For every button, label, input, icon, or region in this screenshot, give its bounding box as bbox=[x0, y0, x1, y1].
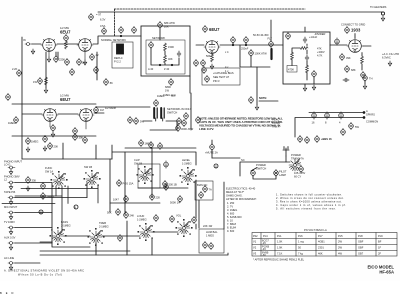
capacitor C31 coupling bbox=[153, 108, 155, 118]
svg-text:2301: 2301 bbox=[318, 246, 324, 250]
svg-text:47K: 47K bbox=[317, 47, 322, 51]
svg-text:GBF: GBF bbox=[358, 240, 364, 244]
wire tone band y251 bbox=[40, 250, 130, 252]
svg-text:40K: 40K bbox=[168, 57, 173, 61]
table voltage chart bbox=[252, 228, 397, 256]
svg-text:6EU7: 6EU7 bbox=[60, 97, 71, 102]
ground at J1 bbox=[31, 49, 34, 54]
ground screen bbox=[255, 105, 258, 110]
tube V3b bbox=[78, 109, 94, 122]
svg-text:300K ATW: 300K ATW bbox=[181, 127, 194, 131]
potentiometer P4 bbox=[134, 117, 139, 124]
resistor R18 bbox=[51, 124, 56, 131]
svg-text:A: A bbox=[366, 109, 368, 113]
capacitor C50 bbox=[124, 195, 129, 202]
capacitor C48 2meg bbox=[41, 192, 46, 199]
wire to V4 grid bbox=[330, 34, 371, 47]
ground AC fil bbox=[388, 61, 391, 66]
wire jack rows bbox=[15, 183, 87, 264]
svg-text:HUM BAL: HUM BAL bbox=[206, 230, 218, 234]
svg-text:POWER: POWER bbox=[291, 153, 301, 157]
capacitor C34 bbox=[182, 119, 187, 126]
wire screen feed bbox=[256, 67, 258, 105]
capacitor C35 bbox=[184, 112, 189, 119]
svg-text:LO-G: LO-G bbox=[4, 163, 10, 167]
svg-text:SWITCH: SWITCH bbox=[167, 111, 177, 115]
svg-text:BIAS DC: BIAS DC bbox=[197, 183, 208, 187]
capacitor C6 left bbox=[17, 69, 22, 76]
svg-text:NETWORK-IN ONLY: NETWORK-IN ONLY bbox=[167, 107, 192, 111]
svg-text:LINE 117V.: LINE 117V. bbox=[199, 127, 214, 131]
svg-text:CONNECT TO GRID: CONNECT TO GRID bbox=[341, 23, 365, 27]
svg-text:6EU7: 6EU7 bbox=[60, 30, 71, 35]
pin numbers loudness bbox=[138, 223, 155, 241]
svg-text:E: E bbox=[40, 210, 42, 214]
wire tone band bbox=[40, 232, 178, 247]
svg-text:20K: 20K bbox=[164, 25, 169, 29]
capacitor C12 bbox=[201, 59, 206, 66]
resistor R22 20K bbox=[48, 142, 53, 149]
capacitor C54 bbox=[299, 165, 304, 172]
wire mid verticals down bbox=[110, 148, 196, 218]
svg-text:V1: V1 bbox=[253, 240, 257, 244]
plug AC bbox=[283, 147, 289, 157]
capacitor C40 bbox=[26, 137, 31, 144]
svg-text:33K: 33K bbox=[32, 179, 37, 183]
potentiometer P1 68K bbox=[158, 21, 163, 28]
ground V1b cathode bbox=[83, 60, 86, 65]
svg-text:1MEG: 1MEG bbox=[163, 93, 170, 97]
potentiometer P5 500K bbox=[178, 195, 183, 202]
resistor R4 bbox=[77, 58, 82, 65]
svg-text:500K 1A: 500K 1A bbox=[170, 201, 180, 205]
node E bbox=[6, 281, 14, 298]
capacitor C18 note bbox=[249, 96, 254, 103]
svg-text:1 mg: 1 mg bbox=[298, 240, 304, 244]
svg-text:FUNC: FUNC bbox=[45, 166, 52, 170]
wire V2 cathode bbox=[211, 54, 213, 55]
svg-text:SW 1A: SW 1A bbox=[45, 170, 53, 174]
wire lower bus bbox=[22, 158, 112, 160]
resistor R10 under V2 bbox=[211, 54, 214, 62]
box bias supply bbox=[195, 181, 213, 200]
capacitor C13 bbox=[202, 66, 207, 73]
svg-text:+A.C. FIL HTR: +A.C. FIL HTR bbox=[382, 52, 399, 56]
svg-text:500 1B: 500 1B bbox=[169, 183, 177, 187]
capacitor C16 bbox=[269, 40, 274, 47]
wire power primary bbox=[212, 157, 240, 159]
tap 8 ohm bbox=[325, 112, 330, 119]
svg-text:39K: 39K bbox=[346, 56, 351, 60]
node junction row1 bbox=[120, 35, 121, 36]
wire mid row bbox=[143, 118, 177, 121]
wire selector bus y188 bbox=[21, 188, 98, 190]
svg-text:105-125V: 105-125V bbox=[294, 171, 306, 175]
resistor R7 150K bbox=[164, 43, 167, 51]
box phono cartridge bbox=[112, 42, 133, 68]
svg-text:2F: 2F bbox=[378, 252, 381, 256]
wire rotary1 drops bbox=[56, 186, 68, 231]
svg-text:SW 1B: SW 1B bbox=[84, 165, 92, 169]
label V2 tube 6EU7 bbox=[203, 25, 208, 32]
jack J1 tape input bbox=[25, 43, 32, 46]
wire J1 to V1a grid bbox=[32, 43, 41, 45]
pin numbers volume bbox=[176, 219, 193, 237]
svg-text:BF: BF bbox=[378, 240, 382, 244]
svg-text:VOL: VOL bbox=[176, 214, 182, 218]
capacitor C27 bbox=[363, 74, 368, 81]
svg-text:5. 6AN8-600: 5. 6AN8-600 bbox=[227, 215, 242, 219]
svg-text:4. 600: 4. 600 bbox=[227, 212, 235, 216]
fuse F2 mute bbox=[210, 143, 215, 150]
svg-text:1-2MEG: 1-2MEG bbox=[182, 162, 192, 166]
resistor R15 68K bbox=[345, 65, 350, 72]
capacitor C3 on EQ line bbox=[132, 26, 137, 33]
wire V1a plate to V1b bbox=[57, 43, 78, 45]
svg-text:AC LINE: AC LINE bbox=[4, 256, 14, 260]
svg-text:POS 15A: POS 15A bbox=[123, 182, 134, 186]
svg-text:+300V: +300V bbox=[317, 50, 325, 54]
resistor R24 pos bbox=[117, 179, 122, 186]
resistor R21 5W bbox=[349, 122, 354, 129]
wire in box bbox=[151, 48, 179, 65]
wire left bus vertical bbox=[21, 37, 23, 159]
resistor R5 bbox=[38, 77, 43, 84]
box tone network bbox=[141, 26, 190, 76]
wire y200 bbox=[110, 202, 160, 204]
pin numbers bass bbox=[50, 227, 67, 245]
pin numbers SW1B bbox=[84, 170, 101, 188]
svg-text:7. 6BL8: 7. 6BL8 bbox=[227, 222, 236, 226]
wire rotary1 drops bbox=[0, 281, 13, 298]
box cathode bias note bbox=[202, 68, 240, 85]
svg-text:MEAS AT *FLT*: MEAS AT *FLT* bbox=[226, 190, 244, 194]
wire fuse vertical bbox=[211, 140, 213, 158]
capacitor C55 bbox=[116, 208, 121, 215]
svg-text:4.7K: 4.7K bbox=[317, 54, 323, 58]
wire speaker line upper bbox=[309, 112, 364, 114]
svg-text:20K: 20K bbox=[54, 145, 59, 149]
svg-text:1. 250: 1. 250 bbox=[227, 201, 235, 205]
svg-text:A 40: A 40 bbox=[148, 67, 154, 71]
ground C40 bbox=[26, 147, 29, 152]
capacitor C43 bbox=[83, 136, 88, 143]
svg-text:9. 600: 9. 600 bbox=[227, 229, 235, 233]
node speaker terminal 1 bbox=[363, 112, 365, 114]
capacitor C42 bbox=[73, 133, 78, 140]
list voltages center bbox=[226, 187, 257, 234]
svg-text:6.3V: 6.3V bbox=[100, 18, 106, 22]
potentiometer P2 100K bbox=[249, 49, 254, 56]
svg-text:250uF: 250uF bbox=[241, 47, 249, 51]
svg-text:6EU7: 6EU7 bbox=[209, 27, 220, 32]
capacitor C10 in box bbox=[177, 51, 181, 57]
capacitor C28 left bbox=[6, 93, 11, 100]
capacitor C21 bbox=[305, 55, 309, 61]
wire bias row bbox=[12, 103, 96, 105]
rotary switch SW1A bbox=[53, 174, 65, 187]
capacitor C59 bbox=[192, 216, 197, 223]
potentiometer P3 bbox=[128, 116, 133, 123]
capacitor C41 bbox=[43, 135, 48, 142]
tube V1b 6EU7 bbox=[77, 39, 93, 52]
capacitor C49 bbox=[163, 180, 168, 187]
svg-text:4W: 4W bbox=[338, 252, 342, 256]
svg-text:SEE TEXT AT: SEE TEXT AT bbox=[213, 75, 230, 79]
svg-text:CLIP: CLIP bbox=[134, 158, 140, 162]
svg-text:+MUTE 2A: +MUTE 2A bbox=[205, 151, 218, 155]
rotary switch SW1B bbox=[86, 173, 98, 186]
ground below divider bbox=[303, 86, 306, 91]
pin numbers level control bbox=[180, 167, 197, 185]
capacitor C30 id bbox=[154, 99, 159, 106]
svg-text:D: D bbox=[215, 164, 217, 168]
svg-text:SWITCH: SWITCH bbox=[256, 167, 266, 171]
ground R23 bbox=[26, 186, 29, 191]
svg-text:6.3VAC: 6.3VAC bbox=[382, 56, 391, 60]
wire V1b out bbox=[93, 36, 141, 44]
wire to switch band bbox=[112, 145, 196, 165]
wire coupling top bbox=[96, 106, 150, 108]
resistor R13 bbox=[306, 65, 309, 73]
svg-text:68K ATW: 68K ATW bbox=[164, 21, 175, 25]
wire stage box right bbox=[150, 93, 191, 130]
wire rotary2 drop bbox=[0, 281, 13, 298]
capacitor C26 bbox=[343, 78, 349, 82]
capacitor C24 bbox=[361, 71, 366, 78]
svg-text:5. All switches viewed from th: 5. All switches viewed from the rear. bbox=[276, 207, 336, 211]
capacitor C52 bbox=[164, 183, 169, 190]
wire power line bbox=[240, 162, 290, 176]
ground C41 bbox=[43, 146, 46, 151]
capacitor C57 bbox=[154, 214, 159, 221]
wire selector y196 bbox=[0, 281, 13, 298]
resistor R20 300K bbox=[176, 124, 181, 131]
svg-text:GBF: GBF bbox=[358, 246, 364, 250]
svg-text:2.2K: 2.2K bbox=[12, 67, 18, 71]
capacitor C7 bbox=[70, 68, 75, 75]
transformer T2 power bbox=[289, 159, 301, 172]
svg-text:Pn7: Pn7 bbox=[318, 234, 323, 238]
svg-text:PILOT: PILOT bbox=[279, 170, 287, 174]
wire comp row y148 bbox=[125, 147, 196, 149]
svg-text:TREB: TREB bbox=[99, 221, 106, 225]
svg-text:60 CY: 60 CY bbox=[294, 175, 301, 179]
resistor R3 bbox=[65, 58, 70, 65]
svg-text:AUX 0.5V: AUX 0.5V bbox=[4, 236, 16, 240]
tube V3a bbox=[42, 109, 58, 122]
svg-text:7 kg: 7 kg bbox=[298, 252, 303, 256]
capacitor C22 bbox=[345, 26, 350, 33]
svg-text:24K: 24K bbox=[130, 214, 135, 218]
capacitor C4 bbox=[90, 53, 95, 60]
label EICO model bbox=[367, 265, 394, 275]
capacitor C8 bbox=[94, 66, 99, 73]
svg-text:1W: 1W bbox=[165, 89, 169, 93]
wire V3b cathode stub bbox=[85, 122, 87, 130]
svg-text:1MEG: 1MEG bbox=[31, 140, 38, 144]
capacitor C39 bbox=[315, 135, 320, 142]
box around SW2 bbox=[138, 164, 160, 188]
capacitor C14 filter bbox=[231, 36, 236, 43]
svg-text:6. 10: 6. 10 bbox=[227, 219, 233, 223]
svg-text:TH: TH bbox=[369, 77, 373, 81]
resistor R11 47K bbox=[300, 47, 308, 50]
capacitor C15 filter bbox=[244, 36, 249, 43]
ground C27 bbox=[363, 84, 366, 89]
capacitor C20 divider bbox=[303, 37, 307, 43]
box voltage divider bbox=[283, 32, 330, 84]
wire filter branch bbox=[240, 45, 270, 67]
wire switch to lamp bbox=[253, 176, 276, 180]
capacitor C29 id bbox=[94, 106, 99, 113]
capacitor C33 bbox=[177, 117, 182, 124]
capacitor C44 bbox=[139, 139, 144, 146]
svg-text:-6V: -6V bbox=[262, 253, 266, 257]
ground C25 bbox=[312, 85, 315, 90]
svg-text:1-2MEG: 1-2MEG bbox=[137, 218, 147, 222]
wire rotary2 drop bbox=[97, 185, 99, 203]
potentiometer bass bbox=[52, 230, 64, 243]
svg-text:NOTE:: NOTE: bbox=[259, 96, 267, 100]
resistor R6 bbox=[45, 77, 48, 85]
svg-text:LOUD: LOUD bbox=[137, 214, 144, 218]
wire selector y196 bbox=[15, 195, 62, 197]
capacitor C5 bbox=[104, 78, 109, 85]
node B bbox=[74, 205, 78, 209]
resistor R1 bbox=[65, 41, 68, 49]
wire feed to divider box bbox=[270, 20, 272, 41]
wire box right vertical bbox=[189, 76, 191, 93]
svg-text:A. DIRECTIONAL STANDARD VIOLE: A. DIRECTIONAL STANDARD VIOLET ON 50-45A… bbox=[4, 269, 84, 273]
node heater terminal bbox=[381, 12, 384, 15]
tube V4 output bbox=[347, 40, 363, 53]
pin numbers treble bbox=[88, 228, 105, 246]
capacitor C45 bbox=[149, 141, 154, 148]
capacitor C56 bbox=[124, 211, 129, 218]
wire divider internals bbox=[292, 44, 307, 80]
svg-text:-2V: -2V bbox=[262, 241, 266, 245]
svg-text:1F: 1F bbox=[378, 246, 381, 250]
electrolytic C17 bbox=[270, 49, 272, 59]
svg-text:.5K: .5K bbox=[109, 81, 113, 85]
resistor R12 bbox=[291, 52, 294, 60]
potentiometer hum bbox=[203, 241, 208, 248]
svg-text:TO HEATERS: TO HEATERS bbox=[370, 5, 387, 9]
svg-text:Pn1: Pn1 bbox=[277, 234, 282, 238]
wire selector y203 bbox=[2, 203, 55, 205]
svg-text:NORMAL NETWORK: NORMAL NETWORK bbox=[101, 38, 126, 42]
svg-text:PN VOLT PESO LA: PN VOLT PESO LA bbox=[304, 228, 327, 232]
svg-text:1W: 1W bbox=[33, 80, 37, 84]
svg-text:470K: 470K bbox=[288, 68, 294, 72]
resistor R17 1MEG bbox=[14, 116, 19, 123]
wire selector y203 bbox=[0, 281, 13, 298]
svg-text:2-1MEG: 2-1MEG bbox=[61, 224, 71, 228]
capacitor C61 hum bbox=[209, 242, 214, 249]
list notes right bbox=[276, 193, 346, 211]
wire selector bus y188 bbox=[0, 281, 13, 298]
svg-text:IN: IN bbox=[23, 38, 26, 42]
capacitor C2 on EQ line bbox=[119, 26, 124, 33]
svg-text:3. 1MEG: 3. 1MEG bbox=[227, 208, 237, 212]
wire V1a cathode stub bbox=[48, 52, 50, 58]
wire row2 bottom bus bbox=[12, 135, 96, 137]
svg-text:8. EL84: 8. EL84 bbox=[227, 226, 236, 230]
pin numbers SW1A bbox=[51, 171, 68, 189]
svg-text:NC: NC bbox=[241, 158, 245, 162]
wire heater bus top bbox=[98, 11, 383, 13]
resistor R16 bbox=[361, 56, 364, 64]
wire note right bbox=[259, 100, 278, 102]
wire bias feed vertical bbox=[223, 182, 225, 229]
resistor R23 33K bbox=[26, 176, 31, 183]
svg-text:AFTER 30 MIN WARMUP:: AFTER 30 MIN WARMUP: bbox=[226, 197, 257, 201]
wire trans entry bbox=[285, 156, 287, 162]
svg-text:2. 7V: 2. 7V bbox=[227, 205, 233, 209]
svg-text:Pn9: Pn9 bbox=[378, 234, 383, 238]
svg-text:GB7: GB7 bbox=[358, 252, 364, 256]
tap 16 ohm bbox=[312, 112, 317, 119]
tap 4 ohm bbox=[339, 112, 344, 119]
node A marker bbox=[164, 161, 169, 168]
svg-text:OHMS CHAS.: OHMS CHAS. bbox=[226, 194, 243, 198]
svg-text:Pn6: Pn6 bbox=[298, 234, 303, 238]
svg-text:B: B bbox=[74, 205, 76, 209]
ground below V1a bbox=[44, 88, 47, 93]
capacitor C19 in bias box bbox=[205, 75, 210, 82]
svg-text:MW: MW bbox=[171, 94, 176, 98]
svg-text:V2: V2 bbox=[253, 246, 257, 250]
wire P1 leg bbox=[159, 29, 161, 40]
svg-text:5W: 5W bbox=[355, 125, 359, 129]
svg-text:2W: 2W bbox=[338, 240, 342, 244]
wire into divider box bbox=[304, 27, 306, 32]
svg-text:TV 16MV: TV 16MV bbox=[4, 220, 15, 224]
svg-text:TRANS 7A: TRANS 7A bbox=[291, 157, 304, 161]
svg-text:TAPE P.B.: TAPE P.B. bbox=[4, 190, 16, 194]
capacitor C60 bbox=[118, 234, 123, 241]
wire verticals tone bbox=[96, 221, 196, 255]
node A in divider bbox=[286, 32, 291, 39]
svg-text:-DIVIDER: -DIVIDER bbox=[314, 32, 326, 36]
svg-text:3. Res in ohms K=1000 unless o: 3. Res in ohms K=1000 unless otherwise n… bbox=[276, 200, 342, 204]
capacitor C46 bbox=[158, 142, 163, 149]
capacitor C53 bias bbox=[203, 185, 208, 192]
svg-text:22K 1W: 22K 1W bbox=[203, 224, 213, 228]
svg-text:100K ATW: 100K ATW bbox=[255, 52, 268, 56]
svg-text:HF-65A: HF-65A bbox=[379, 270, 394, 275]
svg-text:2. Wires in cross do not conne: 2. Wires in cross do not connect unless … bbox=[276, 196, 344, 200]
switch S1 power bbox=[251, 169, 256, 176]
capacitor C25 bbox=[312, 70, 317, 77]
boxed label 470K bbox=[287, 66, 297, 73]
wire V2 plate line bbox=[196, 44, 283, 46]
svg-text:V3: V3 bbox=[253, 252, 257, 256]
svg-text:2MEG: 2MEG bbox=[47, 195, 54, 199]
svg-text:+CATHODE BIAS: +CATHODE BIAS bbox=[213, 71, 234, 75]
svg-text:22K: 22K bbox=[156, 196, 161, 200]
resistor R2 below V1a bbox=[54, 55, 59, 62]
node D bbox=[214, 164, 218, 168]
svg-text:Pn8: Pn8 bbox=[358, 234, 363, 238]
svg-text:1.9K: 1.9K bbox=[277, 246, 283, 250]
phono head shell bbox=[117, 44, 124, 54]
capacitor C1 bbox=[64, 34, 69, 41]
svg-text:FLT: FLT bbox=[268, 37, 273, 41]
potentiometer volume bbox=[178, 222, 190, 235]
resistor R25 bias bbox=[199, 191, 204, 198]
